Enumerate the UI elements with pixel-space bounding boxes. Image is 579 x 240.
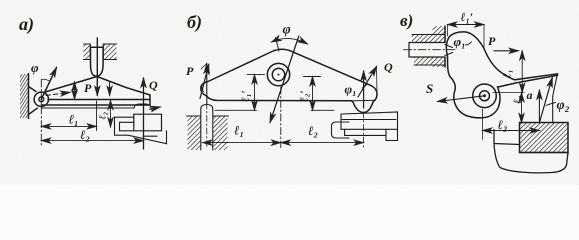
- angle arc at pivot: [41, 79, 49, 81]
- svg-text:ℓ₂: ℓ₂: [98, 112, 109, 120]
- second contact arrow: [109, 83, 111, 96]
- phi1 arc v: [466, 42, 472, 45]
- pivot hole: [272, 68, 284, 80]
- support top surface right: [213, 115, 229, 117]
- Q vertical arrow: [363, 71, 365, 108]
- svg-text:ℓ₁′: ℓ₁′: [461, 10, 474, 24]
- svg-text:ℓ₂′: ℓ₂′: [299, 90, 311, 102]
- l1 right extension: [96, 101, 98, 131]
- svg-text:ℓ₁: ℓ₁: [234, 123, 244, 138]
- bottom tick left: [215, 109, 257, 111]
- support hatch left: [188, 116, 201, 150]
- svg-text:Q: Q: [149, 78, 158, 92]
- lever bar top line: [48, 99, 150, 101]
- l1 vertical dim v: [521, 51, 523, 93]
- right support step: [345, 129, 398, 140]
- lever top edge rising: [44, 77, 98, 93]
- pivot level tick v: [493, 92, 524, 94]
- rod top guide line: [412, 34, 445, 36]
- lever top edge falling wedge: [97, 77, 150, 96]
- rod tip: [445, 45, 453, 56]
- l1 dimension b: [203, 142, 281, 144]
- base outline v: [494, 130, 568, 173]
- lever body v: [446, 32, 557, 118]
- svg-text:а): а): [19, 14, 34, 35]
- phi1 small angle at P: [202, 87, 204, 93]
- plunger body: [91, 47, 104, 76]
- svg-text:б): б): [187, 12, 202, 33]
- pivot pin: [39, 97, 44, 102]
- Q slanted arrow: [358, 67, 377, 98]
- l2 extension below pivot: [482, 109, 484, 140]
- figure a group: [19, 14, 167, 149]
- l2 dimension line: [41, 140, 143, 142]
- plunger guide hatch left: [84, 44, 91, 60]
- clamp face line: [553, 75, 558, 123]
- svg-text:φ: φ: [31, 60, 39, 75]
- support hatch right: [214, 116, 228, 150]
- svg-text:в): в): [400, 11, 413, 30]
- lever right edge: [149, 95, 151, 105]
- clevis bottom line: [29, 108, 38, 114]
- svg-text:P: P: [84, 81, 92, 95]
- l1 dimension line: [41, 125, 96, 127]
- l2 horizontal dim v: [483, 130, 540, 132]
- bracket piece: [115, 117, 134, 135]
- wall hatching left: [20, 74, 29, 118]
- l1' right extension: [483, 25, 485, 49]
- svg-text:ℓ₂: ℓ₂: [498, 117, 508, 132]
- svg-text:ℓ₂: ℓ₂: [308, 123, 318, 138]
- right support rect: [341, 112, 398, 129]
- contact arrow mark: [150, 107, 161, 109]
- apex angle arc: [272, 38, 308, 44]
- pivot vertical centerline: [280, 87, 282, 148]
- svg-text:ℓ₂: ℓ₂: [512, 95, 524, 104]
- figure b group: [186, 12, 398, 150]
- clevis top line: [29, 87, 37, 92]
- apex left tick: [276, 38, 280, 52]
- q arrow vertical: [143, 78, 145, 149]
- dashed initial position line: [46, 92, 70, 95]
- vertical force line: [538, 90, 540, 123]
- plunger guide right edge: [103, 44, 116, 60]
- rod bottom guide line: [414, 64, 445, 66]
- phi2 arc: [546, 103, 556, 106]
- l2' vertical dimension: [312, 77, 314, 111]
- plunger guide left edge: [84, 44, 91, 60]
- svg-text:φ₂: φ₂: [557, 98, 570, 113]
- support centerline q: [363, 112, 365, 148]
- bump chord line: [352, 99, 375, 102]
- svg-text:Q: Q: [384, 60, 393, 74]
- small vertical dim l3: [110, 100, 112, 127]
- lever bar bottom line: [41, 104, 150, 106]
- small gap dimension: [74, 82, 76, 99]
- bar lower second line: [42, 107, 134, 109]
- svg-text:S: S: [426, 81, 433, 96]
- svg-text:ℓ₁: ℓ₁: [502, 69, 514, 78]
- slanted line through pivot: [270, 36, 299, 123]
- workpiece hatched block: [520, 123, 569, 153]
- l1' top dimension: [448, 24, 485, 26]
- wall edge v: [444, 26, 446, 43]
- force P arrow big: [96, 38, 98, 96]
- pivot hole v: [480, 91, 490, 101]
- P slanted force arrow: [200, 65, 209, 99]
- right support clip: [332, 122, 350, 138]
- l1' vertical dimension: [254, 75, 256, 111]
- P arrow v: [494, 50, 519, 52]
- svg-text:φ₁: φ₁: [345, 82, 357, 97]
- workpiece rectangle: [134, 114, 162, 131]
- svg-text:a: a: [527, 88, 533, 102]
- pivot level tick right: [304, 76, 321, 78]
- rod centerline: [404, 49, 456, 51]
- rod centerline: [206, 103, 208, 148]
- l2 vertical dim v: [521, 93, 523, 123]
- svg-text:φ₁: φ₁: [454, 34, 466, 49]
- plunger guide hatch right: [103, 44, 116, 60]
- pivot dot v: [483, 94, 486, 97]
- phi1 arc right: [362, 84, 368, 89]
- support rod b: [201, 105, 213, 151]
- Q parallelogram right side: [376, 67, 379, 95]
- support inner line: [342, 119, 396, 121]
- rod body: [409, 43, 445, 58]
- svg-text:ℓ₁: ℓ₁: [69, 112, 79, 127]
- pivot outer v: [473, 84, 497, 108]
- Q slant arrow v: [539, 78, 552, 123]
- support top surface left: [187, 115, 201, 117]
- force direction arrow up-right: [41, 68, 56, 100]
- pivot outer circle: [34, 92, 48, 106]
- svg-text:ℓ₂: ℓ₂: [80, 127, 90, 142]
- svg-text:P: P: [488, 34, 496, 48]
- pivot dot: [278, 74, 280, 76]
- wall edge: [28, 74, 30, 119]
- pivot centerline: [40, 80, 42, 147]
- P parallelogram top line: [201, 64, 207, 70]
- clamped piece nose: [134, 104, 153, 111]
- svg-text:ℓ₁′: ℓ₁′: [240, 90, 252, 102]
- plate outline: [201, 49, 377, 112]
- rod hatch wall: [433, 26, 446, 43]
- l2 dimension b: [281, 142, 364, 144]
- pivot level tick left: [247, 74, 265, 76]
- figure v group: [400, 10, 570, 173]
- l1' left extension: [447, 25, 449, 37]
- bracket bottom curve: [115, 131, 167, 144]
- P vertical component line: [206, 64, 208, 105]
- pivot boss outer: [267, 63, 289, 85]
- svg-text:φ: φ: [283, 23, 291, 38]
- bottom tick right: [311, 109, 334, 111]
- svg-text:P: P: [186, 64, 194, 78]
- S arrow: [438, 96, 485, 102]
